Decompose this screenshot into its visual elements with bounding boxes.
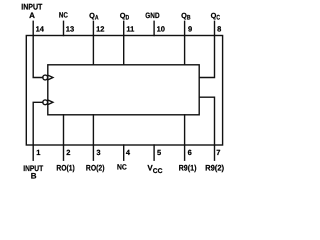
wire pin 8 QC around block right edge bbox=[199, 36, 214, 78]
wire pin 11 QD to block top bbox=[123, 36, 125, 65]
pin 5 tick bbox=[153, 145, 155, 160]
wire pin 3 RO(2) to block bottom bbox=[92, 115, 94, 145]
wire pin 14 INPUT A to clock CKA bbox=[33, 36, 43, 78]
pin 9 tick bbox=[184, 21, 186, 35]
wire pin 9 QB to block top bbox=[184, 36, 186, 65]
svg-text:1: 1 bbox=[36, 148, 40, 157]
svg-text:13: 13 bbox=[66, 25, 74, 34]
clock CKA inversion bubble bbox=[43, 75, 48, 80]
pin 10 tick bbox=[153, 21, 155, 35]
wire pin 6 R9(1) to block bottom bbox=[184, 115, 186, 145]
svg-text:5: 5 bbox=[157, 148, 161, 157]
pin 8 tick bbox=[214, 21, 216, 35]
pin 2 tick bbox=[63, 145, 65, 160]
svg-text:NC: NC bbox=[117, 163, 127, 172]
clock CKB dynamic-input wedge bbox=[48, 100, 53, 105]
svg-text:GND: GND bbox=[145, 11, 160, 20]
svg-text:8: 8 bbox=[217, 25, 221, 34]
svg-text:RO(2): RO(2) bbox=[86, 164, 105, 173]
svg-text:9: 9 bbox=[188, 25, 192, 34]
pin 7 tick bbox=[214, 145, 216, 160]
svg-text:RO(1): RO(1) bbox=[56, 164, 75, 173]
pin 13 tick bbox=[63, 21, 65, 35]
svg-text:R9(1): R9(1) bbox=[179, 164, 197, 173]
pin 3 tick bbox=[92, 145, 94, 160]
wire pin 12 QA to block top bbox=[92, 36, 94, 65]
svg-text:12: 12 bbox=[96, 25, 104, 34]
svg-text:10: 10 bbox=[157, 25, 165, 34]
pin 4 tick bbox=[123, 145, 125, 160]
clock CKA dynamic-input wedge bbox=[48, 75, 53, 80]
svg-text:3: 3 bbox=[96, 148, 100, 157]
svg-text:7: 7 bbox=[216, 148, 220, 157]
pin 11 tick bbox=[123, 21, 125, 35]
package outline U1 (14-pin DIP) bbox=[26, 36, 222, 146]
svg-text:R9(2): R9(2) bbox=[205, 164, 224, 173]
pin 6 tick bbox=[184, 145, 186, 160]
svg-text:14: 14 bbox=[36, 25, 45, 34]
pin 14 tick bbox=[32, 21, 34, 35]
wire pin 1 INPUT B to clock CKB bbox=[33, 102, 43, 145]
counter logic block bbox=[48, 65, 199, 115]
svg-text:A: A bbox=[29, 11, 35, 20]
svg-text:2: 2 bbox=[66, 148, 70, 157]
wire pin 2 RO(1) to block bottom bbox=[63, 115, 65, 145]
wire pin 7 R9(2) from block right edge bbox=[199, 97, 214, 145]
pin 1 tick bbox=[32, 145, 34, 160]
svg-text:NC: NC bbox=[59, 11, 68, 20]
svg-text:B: B bbox=[31, 172, 37, 181]
pin 12 tick bbox=[92, 21, 94, 35]
svg-text:11: 11 bbox=[126, 25, 134, 34]
clock CKB inversion bubble bbox=[43, 100, 48, 105]
svg-text:6: 6 bbox=[188, 148, 192, 157]
